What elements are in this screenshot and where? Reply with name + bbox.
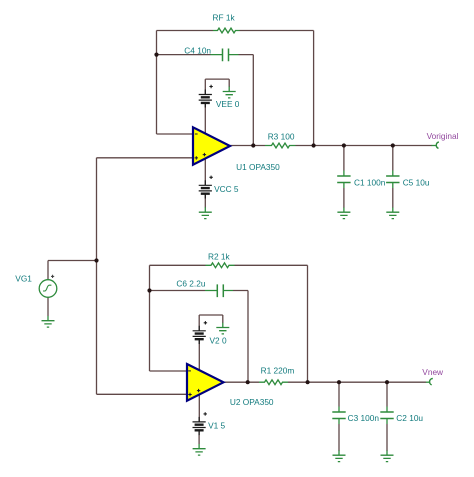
wire loop2 left vertical <box>149 265 151 371</box>
junction C6 tap <box>147 288 151 292</box>
wire C1 vertical <box>343 146 345 208</box>
wire loop1 right vertical <box>313 31 315 146</box>
ground of VEE <box>223 87 236 98</box>
wire U2 output rail <box>224 381 427 383</box>
svg-text:Vnew: Vnew <box>422 367 444 377</box>
ground of C3 <box>333 451 346 462</box>
svg-text:C3 100n: C3 100n <box>348 413 380 423</box>
svg-text:VCC 5: VCC 5 <box>214 184 239 194</box>
generator VG1 <box>39 280 57 298</box>
wire C3 vertical <box>338 382 340 451</box>
ground of VCC <box>199 207 212 218</box>
wire C6 branch <box>150 291 249 383</box>
junction RF feedback <box>312 143 316 147</box>
wire U1 non-inverting input <box>97 157 194 159</box>
capacitor C4 <box>211 49 239 62</box>
battery VCC <box>199 176 213 199</box>
wire U1 to VCC battery <box>204 150 206 208</box>
battery V1 <box>193 412 207 435</box>
junction U1 output / C4 <box>251 143 255 147</box>
svg-text:C1 100n: C1 100n <box>354 177 386 187</box>
svg-text:VG1: VG1 <box>15 274 32 284</box>
junction U2 output / C6 <box>246 380 250 384</box>
wire U2 to V1 battery <box>198 388 200 444</box>
capacitor C2 <box>380 407 393 425</box>
wire U1 output rail <box>230 145 432 147</box>
svg-text:Voriginal: Voriginal <box>427 131 459 141</box>
junction C1 tap <box>342 143 346 147</box>
ground of V1 <box>193 444 206 455</box>
wire input bus vertical <box>96 158 98 394</box>
capacitor C5 <box>386 171 399 189</box>
wire loop2 top horizontal <box>150 264 308 266</box>
wire loop2 right vertical <box>307 265 309 382</box>
terminal Voriginal <box>436 142 439 149</box>
wire C4 branch <box>157 55 254 146</box>
wire VEE battery to U1 <box>204 79 206 140</box>
capacitor C3 <box>332 407 345 425</box>
svg-text:C4 10n: C4 10n <box>184 46 211 56</box>
wire VG1 to bus <box>48 261 97 280</box>
ground of VG1 <box>42 316 55 327</box>
wire C2 vertical <box>386 382 388 451</box>
wire top feedback loop1 horizontal <box>157 30 314 32</box>
ground of C5 <box>386 208 399 219</box>
op-amp U2 <box>187 364 224 401</box>
resistor R3 <box>265 143 296 148</box>
svg-text:U1 OPA350: U1 OPA350 <box>236 162 280 172</box>
svg-text:C6 2.2u: C6 2.2u <box>176 279 205 289</box>
battery V2 <box>193 321 208 344</box>
resistor R1 <box>259 380 288 385</box>
wire U1 inverting input <box>157 133 194 135</box>
svg-text:U2 OPA350: U2 OPA350 <box>230 397 274 407</box>
svg-text:VEE 0: VEE 0 <box>216 99 240 109</box>
resistor R2 <box>206 263 235 268</box>
junction C5 tap <box>391 143 395 147</box>
battery VEE <box>199 85 213 108</box>
svg-text:R1 220m: R1 220m <box>261 366 295 376</box>
junction VG1 bus <box>94 258 98 262</box>
junction C3 tap <box>337 380 341 384</box>
svg-text:RF 1k: RF 1k <box>213 13 236 23</box>
ground of C1 <box>337 208 350 219</box>
junction C2 tap <box>385 380 389 384</box>
svg-text:V1 5: V1 5 <box>208 421 225 431</box>
wire U2 non-inverting input <box>97 393 188 395</box>
wire C5 vertical <box>392 146 394 208</box>
wire V2 battery top link <box>199 315 223 323</box>
wire V2 battery to U2 <box>198 315 200 375</box>
svg-text:R2 1k: R2 1k <box>208 251 231 261</box>
ground of V2 <box>216 323 229 334</box>
resistor RF <box>213 28 240 33</box>
svg-text:V2 0: V2 0 <box>210 335 227 345</box>
wire VEE battery top link <box>205 79 229 87</box>
op-amp U1 <box>193 127 230 164</box>
ground of C2 <box>381 451 394 462</box>
svg-text:C2 10u: C2 10u <box>396 413 423 423</box>
junction C4 tap <box>154 53 158 57</box>
wire U2 inverting input <box>150 370 188 372</box>
junction R2 feedback <box>306 380 310 384</box>
wire VG1 to ground <box>47 297 49 316</box>
capacitor C6 <box>205 284 233 297</box>
svg-text:R3 100: R3 100 <box>268 132 295 142</box>
terminal Vnew <box>430 379 433 385</box>
svg-text:C5 10u: C5 10u <box>403 177 430 187</box>
wire loop1 left vertical <box>156 31 158 135</box>
capacitor C1 <box>337 171 350 189</box>
